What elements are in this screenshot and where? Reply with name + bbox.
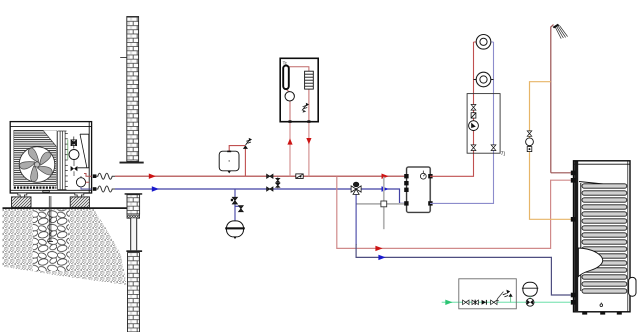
heating circuit pump station box xyxy=(467,94,500,154)
dhw return arrow xyxy=(378,255,385,260)
condenser coil louvres xyxy=(14,130,57,185)
safety relief valve xyxy=(243,138,252,149)
station bottom valves xyxy=(471,145,476,151)
separator panel xyxy=(78,134,89,168)
indoor unit ports xyxy=(289,120,311,123)
svg-text:7j: 7j xyxy=(501,151,505,157)
radiator circle 1 xyxy=(476,35,491,50)
indoor unit drop pipes xyxy=(290,123,309,176)
buffer expansion vessel xyxy=(225,221,245,239)
control line vertical (sensor) xyxy=(356,177,406,229)
brick wall pier below pipes xyxy=(125,193,143,218)
return arrow 2 xyxy=(382,186,389,191)
compressor xyxy=(69,150,79,160)
cold water main (green) xyxy=(442,301,571,303)
indoor safety valve xyxy=(302,103,309,113)
fan xyxy=(18,147,54,183)
flexible hose (flow) xyxy=(96,173,115,179)
valve on flow pipe xyxy=(267,174,273,178)
group valve 2 xyxy=(491,300,497,305)
return arrow 1 xyxy=(152,186,159,191)
radiator return riser xyxy=(430,42,494,203)
recirc valve xyxy=(527,131,532,136)
radiator circle 2 xyxy=(474,72,494,87)
three-way diverting valve xyxy=(351,182,361,194)
group flow direction xyxy=(482,300,487,305)
shower head xyxy=(553,24,568,39)
ground surface line xyxy=(3,207,127,209)
hp red/blue connection stubs xyxy=(81,174,92,190)
station valve (flow) xyxy=(471,105,476,111)
dhw return branch (navy) xyxy=(355,195,357,245)
drop arrows xyxy=(287,138,311,145)
evaporator tube bundle xyxy=(58,131,68,190)
flow arrow 2 xyxy=(382,174,389,179)
cold water arrow xyxy=(445,300,452,305)
internal circulation pump xyxy=(74,160,86,187)
station check valve xyxy=(471,113,476,118)
drain valve xyxy=(239,206,244,212)
service valve xyxy=(71,166,78,171)
brick wall below ground xyxy=(128,253,140,332)
buffer thermometer xyxy=(420,171,426,180)
group valve 1 xyxy=(463,300,469,305)
isolation valve on stub xyxy=(232,197,237,204)
tank ports xyxy=(571,171,576,305)
indoor hydro unit box xyxy=(280,58,318,121)
internal piping (indoor unit) xyxy=(286,67,309,122)
recirc check valve xyxy=(527,147,532,152)
buffer tank xyxy=(407,167,431,212)
soil stipple mass xyxy=(3,208,127,285)
dhw flow branch (pink) xyxy=(337,176,571,248)
heating expansion vessel (square) xyxy=(219,151,239,174)
recirc pump xyxy=(526,138,534,146)
safety valve group riser xyxy=(229,146,245,177)
station pump xyxy=(469,121,479,131)
hp feet xyxy=(18,191,84,197)
shower supply line xyxy=(551,25,554,173)
pipe: heating return (blue main) xyxy=(115,189,406,203)
electric heater element xyxy=(305,71,314,89)
valve on return pipe xyxy=(267,187,273,191)
tank side flange xyxy=(629,277,636,296)
concrete block left xyxy=(12,197,32,207)
expansion valve xyxy=(71,137,77,149)
dhw flow arrow xyxy=(375,246,382,251)
outdoor heat pump unit cabinet xyxy=(10,122,91,193)
dhw expansion vessel xyxy=(522,282,538,302)
group check valve xyxy=(472,300,478,305)
buffer ports xyxy=(404,174,432,206)
tank inner blob xyxy=(578,248,602,277)
radiator flow riser xyxy=(430,42,476,176)
condensate drain pipe xyxy=(47,196,53,242)
foundation column xyxy=(126,218,142,252)
concrete block right xyxy=(70,197,89,207)
heat exchanger capsule xyxy=(283,66,289,90)
inlet safety group box xyxy=(459,279,517,309)
vessel connection stub xyxy=(235,189,241,221)
refrigerant line (green) xyxy=(67,140,69,160)
bottom coil rail xyxy=(14,187,57,189)
flow arrow 1 xyxy=(149,174,156,179)
tank drain cock xyxy=(600,303,603,307)
DHW cylinder xyxy=(574,161,631,312)
gravel soakaway pit xyxy=(33,210,69,272)
dirt separator (filter) on flow xyxy=(296,174,303,179)
cold water pump/valve xyxy=(526,298,534,306)
pipe: heating flow (red main) xyxy=(115,175,406,177)
circulation pump (indoor) xyxy=(285,92,294,101)
brick wall upper column xyxy=(120,17,144,164)
tank coil xyxy=(579,182,627,294)
group safety relief xyxy=(497,290,513,303)
tank feet xyxy=(582,312,622,315)
hp port fittings xyxy=(93,174,97,190)
flexible hose (return) xyxy=(96,186,115,192)
differential bypass valve xyxy=(276,176,280,189)
control node xyxy=(381,201,387,207)
recirculation line (orange) xyxy=(530,82,571,220)
